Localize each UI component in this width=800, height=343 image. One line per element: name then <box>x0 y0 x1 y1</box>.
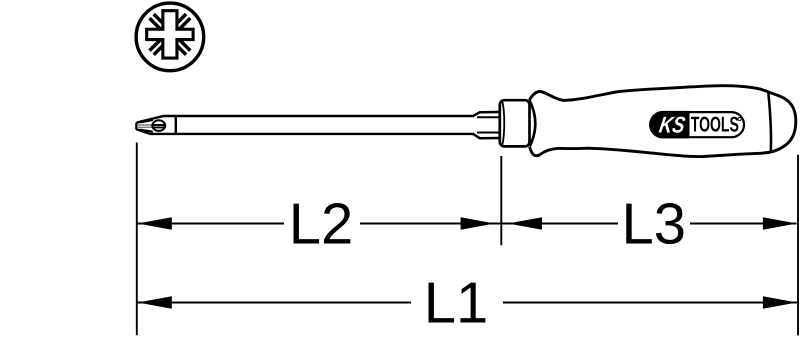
svg-text:L1: L1 <box>424 271 489 336</box>
svg-text:KS: KS <box>657 111 687 137</box>
dimension L3 line <box>501 223 796 225</box>
tip-shaft junction line <box>175 116 177 134</box>
extension line middle <box>500 156 502 245</box>
svg-text:TOOLS: TOOLS <box>691 113 739 137</box>
hex facet lines <box>477 117 501 132</box>
L3 left arrow <box>508 217 542 230</box>
extension line left <box>136 143 138 336</box>
end cap line <box>768 92 771 152</box>
L2 right arrow <box>461 217 495 230</box>
pozidriv symbol circle <box>136 3 204 71</box>
L3 right arrow <box>763 217 797 230</box>
pozidriv cross outline <box>147 11 193 58</box>
svg-text:L3: L3 <box>621 191 686 256</box>
gray flute band on tip <box>137 125 165 127</box>
logo black left section <box>649 111 689 138</box>
hex bolster <box>473 112 501 138</box>
dimension L1 line <box>138 302 798 304</box>
dimension L2 line <box>138 223 502 225</box>
tip flute slots inside circle <box>153 125 166 127</box>
logo registered mark <box>738 117 741 120</box>
screwdriver tip + shaft outline <box>136 116 474 134</box>
svg-text:L2: L2 <box>289 191 354 256</box>
ferrule (collar) <box>500 100 530 146</box>
handle outline <box>529 86 796 157</box>
extension line right <box>797 155 799 336</box>
tip wing lines <box>140 120 153 132</box>
KS TOOLS logo pill <box>650 112 744 137</box>
tick slits (white) <box>151 15 189 53</box>
L2 left arrow <box>138 217 172 230</box>
L1 right arrow <box>763 296 797 309</box>
ferrule left face arc <box>502 101 504 145</box>
tip circle <box>152 120 165 131</box>
pozidriv cross outline (over ticks) <box>147 11 193 58</box>
ferrule-handle boundary arc <box>529 100 535 146</box>
L1 left arrow <box>138 296 172 309</box>
pozidriv diagonal ticks <box>152 16 189 53</box>
